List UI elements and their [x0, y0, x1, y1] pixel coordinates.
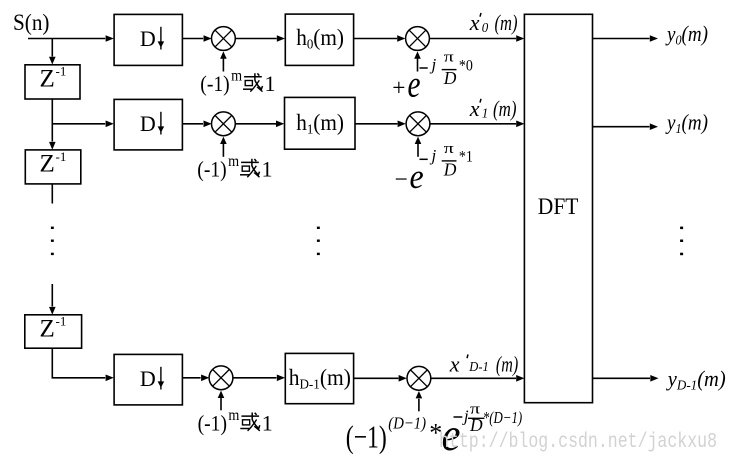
wire branch down to Z1 — [49, 39, 56, 65]
label Z1 value — [40, 64, 67, 93]
label D-downarrow row 1 — [140, 26, 164, 51]
downsampler D row 2 — [114, 99, 182, 149]
delay block Z1 — [25, 65, 80, 99]
label h1(m) — [296, 110, 344, 138]
multiplier (1) circle — [212, 27, 236, 51]
delay block Z3 — [25, 315, 82, 348]
wire multiplier to filter row3 — [233, 375, 285, 382]
svg-text:http://blog.csdn.net/jackxu8: http://blog.csdn.net/jackxu8 — [439, 431, 717, 454]
svg-text:π: π — [444, 141, 455, 157]
svg-text:D-1: D-1 — [468, 360, 488, 375]
svg-text:(-1): (-1) — [198, 410, 227, 435]
arrow up into multiplier 2 row3 — [416, 391, 423, 411]
filter h0(m) box — [285, 14, 353, 65]
arrow up into multiplier 1 row2 — [220, 137, 227, 157]
svg-text:x: x — [449, 351, 460, 376]
multiplier (2) circle row2 — [406, 112, 430, 136]
svg-text:S(n): S(n) — [13, 10, 50, 35]
label y0(m) — [665, 21, 708, 49]
label D-downarrow row 3 — [140, 366, 164, 391]
wire to DFT row1 — [429, 35, 524, 42]
svg-text:1: 1 — [262, 157, 273, 182]
ellipsis middle column — [317, 227, 320, 255]
svg-text:(m): (m) — [495, 10, 518, 35]
svg-text:m: m — [231, 68, 242, 85]
svg-text:Z: Z — [40, 150, 55, 177]
wire to DFT row3 — [431, 375, 525, 382]
wire D to multiplier row3 — [182, 375, 209, 382]
svg-text:y0(m): y0(m) — [665, 21, 708, 49]
ellipsis left column — [51, 227, 54, 255]
svg-text:D: D — [443, 160, 457, 180]
svg-text:Z: Z — [40, 315, 55, 342]
svg-text:x: x — [469, 96, 480, 121]
svg-text:e: e — [408, 64, 421, 106]
svg-text:j: j — [430, 55, 437, 74]
svg-text:j: j — [462, 407, 469, 426]
wire below Z2 — [51, 184, 53, 204]
wire filter to multiplier 2 row1 — [354, 35, 406, 42]
svg-text:yD-1(m): yD-1(m) — [666, 366, 726, 394]
multiplier coefficient -e^-jpi/D*1 — [395, 141, 473, 196]
svg-text:hD-1(m): hD-1(m) — [289, 365, 351, 393]
wire D to multiplier row2 — [182, 121, 211, 128]
DFT block — [524, 14, 592, 402]
svg-text:*1: *1 — [459, 149, 473, 166]
wire Z3 to row3 — [52, 348, 114, 381]
svg-text:1: 1 — [262, 410, 273, 435]
svg-text:D: D — [140, 26, 156, 51]
svg-text:m: m — [228, 407, 239, 424]
svg-text:y1(m): y1(m) — [665, 109, 708, 137]
svg-text:0: 0 — [482, 21, 489, 36]
wire input horizontal row1 — [28, 35, 114, 42]
svg-text:-1: -1 — [56, 314, 67, 329]
wire to DFT row2 — [430, 121, 525, 128]
wire above Z3 — [49, 284, 56, 315]
multiplier (2) circle row3 — [407, 366, 431, 390]
arrow up into multiplier 2 row1 — [414, 51, 421, 71]
svg-text:(m): (m) — [496, 352, 518, 377]
arrow up into multiplier 1 row1 — [220, 51, 227, 71]
input label S(n) — [13, 10, 50, 35]
wire Z1 to Z2 — [49, 99, 56, 150]
label D-downarrow row 2 — [140, 111, 164, 136]
downsampler D row 1 — [114, 14, 182, 65]
wire output y0 — [593, 35, 659, 42]
svg-text:e: e — [410, 157, 424, 196]
watermark text — [439, 431, 717, 454]
multiplier coefficient +e^-jpi/D*0 — [392, 50, 473, 106]
svg-text:D: D — [443, 68, 457, 88]
svg-text:*(D−1): *(D−1) — [483, 408, 523, 427]
label (-1)^m or 1 row3 — [198, 407, 273, 436]
label y1(m) — [665, 109, 708, 137]
label (-1)^m or 1 row2 — [197, 153, 272, 182]
delay block Z2 — [25, 150, 81, 184]
arrow up into multiplier 1 row3 — [218, 391, 225, 411]
arrow up into multiplier 2 row2 — [415, 137, 422, 157]
svg-text:π: π — [444, 50, 455, 66]
label x'1(m) — [469, 96, 517, 122]
multiplier (1) circle row2 — [212, 112, 236, 136]
label DFT — [538, 194, 579, 219]
label h0(m) — [296, 25, 344, 53]
svg-text:j: j — [430, 146, 437, 165]
wire filter to multiplier 2 row3 — [354, 375, 407, 382]
svg-text:(−1): (−1) — [346, 419, 387, 455]
svg-text:-1: -1 — [56, 149, 67, 164]
svg-text:m: m — [228, 153, 239, 170]
svg-text:h1(m): h1(m) — [296, 110, 344, 138]
label yD-1(m) — [666, 366, 726, 394]
wire filter to multiplier 2 row2 — [355, 121, 406, 128]
svg-text:(-1): (-1) — [200, 71, 229, 96]
wire multiplier to filter — [235, 35, 285, 42]
wire output yD-1 — [593, 375, 659, 382]
svg-text:h0(m): h0(m) — [296, 25, 344, 53]
svg-text:−: − — [395, 167, 408, 193]
wire D to multiplier — [182, 35, 211, 42]
svg-text:1: 1 — [265, 71, 276, 96]
svg-text:*0: *0 — [459, 57, 473, 74]
multiplier (2) circle row1 — [406, 27, 430, 51]
multiplier coefficient (-1)^(D-1)*e^-jpi/D*(D-1) — [346, 401, 523, 461]
wire multiplier to filter row2 — [235, 121, 284, 128]
svg-text:D: D — [140, 111, 156, 136]
svg-text:x: x — [469, 10, 480, 35]
svg-text:+: + — [392, 76, 405, 102]
svg-text:D: D — [140, 366, 156, 391]
wire output y1 — [593, 123, 659, 130]
filter h1(m) box — [285, 97, 356, 149]
svg-text:(D−1): (D−1) — [388, 414, 426, 433]
label hD-1(m) — [289, 365, 351, 393]
label Z2 value — [40, 149, 67, 178]
label Z3 value — [40, 314, 67, 343]
svg-text:1: 1 — [482, 107, 489, 122]
svg-text:-1: -1 — [56, 64, 67, 79]
downsampler D row 3 — [114, 354, 182, 405]
ellipsis right column — [680, 227, 683, 256]
svg-text:DFT: DFT — [538, 194, 579, 219]
svg-text:(-1): (-1) — [197, 157, 226, 182]
label (-1)^m or 1 row1 — [200, 68, 275, 97]
filter hD-1(m) box — [285, 353, 353, 403]
label x'D-1(m) — [449, 351, 518, 376]
wire branch row2 — [52, 121, 114, 128]
label x'0(m) — [469, 10, 518, 36]
multiplier (1) circle row3 — [209, 366, 233, 390]
svg-text:(m): (m) — [493, 96, 517, 121]
svg-text:Z: Z — [40, 65, 55, 92]
